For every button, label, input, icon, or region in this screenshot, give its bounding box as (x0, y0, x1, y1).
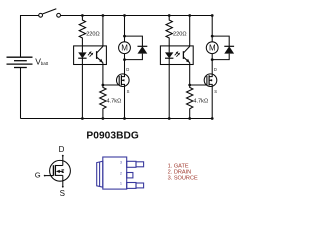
svg-text:1. GATE: 1. GATE (168, 164, 189, 170)
U3 channel bar (54, 165, 56, 176)
wire LED D3 cathode to bottom rail (168, 58, 170, 118)
svg-text:2. DRAIN: 2. DRAIN (168, 170, 192, 176)
flyback diode D4 (212, 36, 234, 60)
svg-text:3. SOURCE: 3. SOURCE (168, 176, 198, 182)
package body (103, 157, 127, 189)
R2 value label 4.7k ohm (107, 98, 122, 104)
wire emitter of U2 to gate node (189, 63, 191, 85)
battery V_batt plates (7, 57, 33, 67)
node junction Q1 source / bottom rail (123, 117, 126, 120)
pin list (red) (168, 164, 198, 182)
wire LED cathode to bottom rail (81, 58, 83, 118)
resistor R1 220ohm (79, 16, 85, 46)
U3 body diode (62, 170, 65, 173)
wire gate to Q2 (190, 84, 207, 86)
MOSFET symbol U3 (legend) (44, 155, 71, 188)
resistor R2 4.7kohm (100, 85, 106, 119)
LED D3 of U2 (165, 46, 173, 58)
node gate junction left (102, 84, 105, 87)
switch S1 pole contact (39, 13, 43, 17)
U3 source connect (55, 174, 62, 176)
package tab (97, 161, 103, 187)
R4 value label 4.7k ohm (193, 98, 208, 104)
U3 drain connect (55, 165, 62, 167)
package lead 3 (top) (127, 161, 136, 167)
svg-text:S: S (60, 189, 65, 198)
motor M2 (206, 42, 218, 54)
wire bottom rail (21, 118, 213, 120)
U3 drain lead (62, 156, 64, 166)
node junction top rail / U2 collector (188, 14, 191, 17)
flyback diode D2 (125, 36, 148, 60)
svg-text:1: 1 (120, 182, 122, 186)
wire battery negative to bottom rail (20, 68, 22, 119)
wire Q2 source to bottom rail (211, 86, 213, 118)
wire collector of U2 to top rail (189, 16, 191, 47)
node junction R2 / bottom rail (102, 117, 105, 120)
svg-text:4.7kΩ: 4.7kΩ (193, 98, 208, 104)
node junction D3 / bottom rail (168, 117, 171, 120)
U3 body connect with arrow (59, 170, 63, 172)
svg-text:M: M (209, 44, 216, 53)
wire Q1 source to bottom rail (124, 86, 126, 118)
light arrows of U1 (88, 51, 93, 57)
svg-text:G: G (35, 171, 41, 180)
svg-text:4.7kΩ: 4.7kΩ (107, 98, 122, 104)
Q2 source label S (214, 89, 217, 94)
node junction top rail / collector (102, 14, 105, 17)
optocoupler U1 box (74, 46, 107, 65)
svg-text:D: D (126, 67, 129, 72)
wire motor M2 bottom (211, 54, 213, 75)
node junction Q2 source / bottom rail end (211, 117, 214, 120)
R3 value label 220 ohm (173, 32, 187, 38)
Q1 drain label D (126, 67, 129, 72)
svg-text:batt: batt (41, 61, 49, 66)
package lead 1 (bottom) (127, 183, 136, 189)
U3 source lead (62, 175, 64, 187)
wire top rail to motor M2 (211, 16, 213, 42)
phototransistor Q of U1 (97, 46, 103, 63)
R1 value label 220 ohm (86, 32, 100, 38)
motor M1 (119, 42, 131, 54)
wire top rail left segment (21, 16, 39, 58)
U3 gate lead (45, 175, 54, 177)
svg-text:M: M (121, 44, 128, 53)
resistor R3 220ohm (166, 16, 172, 46)
wire gate to Q1 (103, 84, 119, 86)
package lead 2 stub (middle) (127, 173, 133, 178)
MOSFET Q1 (117, 74, 130, 87)
U3 label S (60, 189, 65, 198)
switch S1 blade (42, 9, 56, 14)
svg-text:S: S (214, 89, 217, 94)
wire top rail main (61, 15, 213, 17)
wire emitter of U1 to gate node (102, 63, 104, 85)
wire motor bottom (124, 54, 126, 75)
battery label V_batt (35, 56, 49, 66)
package drawing DPAK (blue) (97, 157, 144, 189)
optocoupler U2 box (160, 46, 193, 65)
node junction top rail / motor (123, 14, 126, 17)
package pin numbers (120, 161, 122, 186)
resistor R4 4.7kohm (187, 85, 193, 119)
LED D1 of U1 (78, 46, 86, 58)
switch S1 throw contact (57, 13, 61, 17)
node junction top rail end / motor M2 (211, 14, 214, 17)
svg-text:D: D (59, 145, 65, 154)
svg-text:3: 3 (120, 161, 122, 165)
U3 label G (35, 171, 41, 180)
part number title P0903BDG (86, 131, 139, 142)
wire top rail to motor M1 (124, 16, 126, 42)
node junction motor top / diode (123, 35, 126, 38)
node junction M2 bottom / diode (211, 58, 214, 61)
node junction motor bottom / diode (123, 58, 126, 61)
node junction R4 / bottom rail (188, 117, 191, 120)
svg-text:P0903BDG: P0903BDG (86, 131, 139, 142)
node junction M2 top / diode (211, 35, 214, 38)
phototransistor Q of U2 (183, 46, 189, 63)
svg-text:220Ω: 220Ω (173, 32, 187, 38)
wire collector of U1 to top rail (102, 16, 104, 47)
svg-text:D: D (214, 67, 217, 72)
U3 gate bar (52, 165, 54, 176)
svg-text:220Ω: 220Ω (86, 32, 100, 38)
light arrows of U2 (175, 51, 180, 57)
Q2 drain label D (214, 67, 217, 72)
node gate junction right (188, 84, 191, 87)
MOSFET Q2 (204, 74, 217, 87)
Q1 source label S (127, 89, 130, 94)
node junction top rail / R3 (168, 14, 171, 17)
node junction LED / bottom rail (81, 117, 84, 120)
svg-text:2: 2 (120, 171, 122, 175)
node junction top rail / R1 (81, 14, 84, 17)
svg-text:S: S (127, 89, 130, 94)
U3 label D (59, 145, 65, 154)
